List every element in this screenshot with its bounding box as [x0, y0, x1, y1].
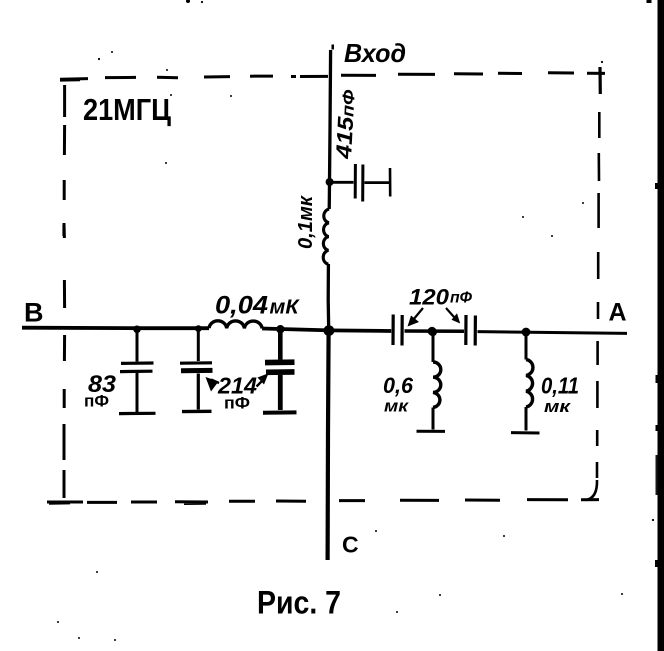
svg-text:В: В: [24, 298, 44, 328]
capacitor C1 plate 2: [120, 370, 153, 374]
inductor L4 0,04мк coil on horizontal wire: [209, 321, 262, 329]
svg-text:А: А: [609, 299, 627, 327]
inductor L2 coil: [433, 362, 441, 408]
svg-text:пФ: пФ: [84, 392, 109, 411]
svg-text:120: 120: [409, 285, 450, 310]
capacitor 415пФ plate 1: [354, 164, 357, 199]
inductor L3 stem bottom: [525, 407, 528, 431]
node Вход tick mark: [332, 45, 335, 50]
arrow to C4: [413, 308, 423, 320]
capacitor C2 plate 1: [180, 361, 212, 365]
arrow to C2: [211, 380, 219, 384]
junction dot inductor 0,6мк: [429, 328, 437, 336]
capacitor C2 214пФ stem top: [197, 329, 200, 361]
capacitor C1 plate 1: [121, 361, 154, 365]
capacitor C3 stem bottom (bold): [278, 375, 283, 410]
capacitor 415пФ plate 2: [361, 165, 364, 202]
svg-text:Рис. 7: Рис. 7: [257, 585, 341, 621]
svg-text:0,1мк: 0,1мк: [295, 195, 317, 249]
svg-text:мк: мк: [384, 397, 410, 416]
shield box bottom dashed border: [47, 500, 599, 505]
shield box left dashed border: [63, 85, 64, 498]
wire vertical input (Вход down to crossing): [329, 50, 330, 209]
svg-text:0,04: 0,04: [215, 292, 268, 320]
main horizontal wire B side: [22, 326, 209, 330]
capacitor C4 plate 2: [400, 315, 403, 346]
capacitor C2 bottom bar: [182, 410, 212, 414]
terminal bar: [389, 168, 392, 197]
main horizontal wire A side: [478, 332, 628, 334]
main horizontal wire between 120пФ capacitors: [405, 329, 465, 333]
svg-text:0,6: 0,6: [383, 373, 414, 398]
inductor L2 stem bottom: [432, 408, 435, 430]
capacitor C1 bottom bar: [119, 412, 156, 416]
svg-text:21МГЦ: 21МГЦ: [83, 92, 171, 127]
junction dot capacitor 83пФ: [133, 326, 141, 334]
svg-text:пФ: пФ: [450, 290, 473, 307]
crossing junction dot: [324, 325, 335, 336]
junction dot between 120пФ capacitors: [428, 327, 437, 336]
shield box right dashed border: [586, 112, 599, 500]
wire branch to capacitor 415пФ: [333, 181, 354, 184]
inductor L3 coil: [526, 360, 533, 408]
inductor L2 0,6мк stem top: [432, 334, 435, 362]
junction dot capacitor 214пФ: [195, 325, 202, 332]
inductor L1 0,1мк coil on vertical wire: [323, 209, 329, 264]
capacitor C2 plate 2 (bold): [181, 368, 213, 373]
arrow to C5: [446, 308, 454, 317]
junction dot capacitor C3: [276, 325, 284, 333]
capacitor C3 plate 1 (bold): [265, 359, 295, 365]
capacitor C5 120пФ plate 1: [464, 315, 467, 345]
svg-text:мК: мК: [270, 297, 301, 319]
capacitor C3 bottom bar: [263, 410, 297, 414]
capacitor C1 stem bottom: [136, 373, 139, 412]
capacitor C2 stem bottom: [197, 374, 200, 410]
ground bar L3: [511, 431, 540, 434]
arrow to C3: [257, 380, 264, 387]
capacitor C3 plate 2 (bold): [266, 369, 295, 375]
capacitor C1 83пФ stem top: [136, 330, 139, 362]
svg-text:мк: мк: [544, 397, 572, 416]
capacitor C4 120пФ plate 1: [391, 315, 394, 346]
wire from 415пФ to terminal: [365, 181, 390, 184]
junction node on vertical wire at 415пФ branch: [326, 178, 334, 186]
shield box top-right corner tick: [598, 67, 601, 94]
wire vertical to node C: [328, 331, 329, 560]
ground bar L2: [417, 430, 446, 433]
main horizontal wire centre segment: [262, 329, 391, 332]
shield box top dashed border: [60, 73, 605, 81]
svg-text:пФ: пФ: [224, 394, 250, 413]
capacitor C5 plate 2: [474, 316, 477, 346]
junction dot inductor 0,11мк: [522, 328, 531, 337]
inductor L3 0,11мк stem top: [525, 334, 528, 360]
capacitor C3 stem top (bold): [278, 330, 283, 360]
svg-text:С: С: [342, 532, 359, 558]
svg-text:Вход: Вход: [344, 38, 406, 68]
svg-text:0,11: 0,11: [541, 373, 579, 399]
